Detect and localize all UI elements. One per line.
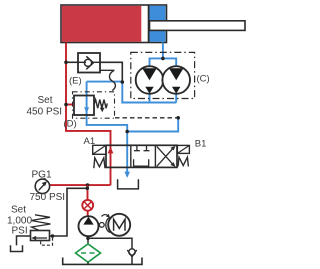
wire red stub to D — [66, 104, 74, 106]
wire blue top horizontal to E junction — [87, 81, 123, 83]
check valve E box — [78, 53, 100, 73]
node junction top bus — [161, 57, 165, 61]
wire blue divider top bus — [150, 58, 177, 66]
wire black bypass to check valve — [88, 238, 132, 249]
tank bracket below valve — [118, 179, 139, 189]
arrow inside relief R2 — [31, 236, 47, 240]
tank bracket R2 — [11, 245, 23, 251]
node junction suction — [86, 237, 90, 241]
wire black red-line to E inlet — [66, 61, 78, 63]
svg-text:Set: Set — [11, 205, 26, 216]
valve V1 crossed arrows position — [157, 146, 176, 167]
pilot arrow of relief D — [100, 104, 105, 112]
flow divider motor left — [136, 66, 164, 94]
spring of relief D — [94, 100, 107, 109]
svg-text:750 PSI: 750 PSI — [30, 192, 66, 203]
node junction red at E — [64, 61, 68, 65]
flow divider motor right — [162, 66, 190, 94]
test point (circle X) — [82, 200, 93, 211]
wire black pump suction — [87, 236, 89, 244]
node junction red above test point — [86, 183, 90, 187]
filter F1 — [76, 244, 101, 262]
directional valve V1 body — [106, 145, 177, 167]
node junction E-blue — [121, 80, 125, 84]
svg-text:PSI: PSI — [12, 226, 28, 237]
relief valve R2 box — [31, 231, 50, 241]
wire red test point to pump — [87, 211, 89, 217]
shaft coupling — [99, 217, 110, 232]
wire blue divider bottom bus to riser — [122, 82, 176, 103]
arrow red flow up in valve — [108, 147, 114, 154]
wire black filter to reservoir — [87, 262, 89, 264]
svg-text:B1: B1 — [195, 139, 207, 150]
svg-text:(E): (E) — [69, 76, 82, 87]
electric motor M1 — [108, 214, 130, 236]
wire black branch to relief valve R2 — [50, 188, 88, 236]
rotation arrow — [102, 214, 111, 218]
wire black E outlet to blue junction — [100, 62, 122, 82]
svg-text:450 PSI: 450 PSI — [27, 107, 63, 118]
node junction red at D — [64, 103, 68, 107]
pilot dashed line D to B1 branch — [115, 117, 178, 119]
solenoid right of valve V1 — [177, 145, 189, 153]
valve V1 center position blocked ports — [134, 145, 150, 166]
pilot dashed of R2 — [41, 238, 53, 245]
spring left of valve V1 — [94, 158, 105, 168]
relief valve D box — [74, 96, 94, 116]
node junction pilot-blue — [176, 116, 180, 120]
wire blue through relief D down to valve B port — [87, 82, 128, 177]
solenoid left of valve V1 — [93, 145, 106, 154]
arrow blue into tank below valve — [124, 172, 130, 178]
bypass check valve CV2 — [127, 249, 136, 265]
wire red cap-end line from cylinder to valve A port — [66, 43, 111, 186]
reservoir bracket — [63, 258, 142, 265]
svg-text:(C): (C) — [197, 74, 210, 85]
wire black E drain with hose squiggle — [100, 70, 115, 90]
wire blue B1 branch — [127, 118, 178, 132]
cylinder C1 piston rod — [150, 21, 246, 31]
check valve E symbol — [78, 56, 100, 69]
gauge PG1 — [35, 178, 49, 194]
svg-text:A1: A1 — [84, 136, 96, 147]
spring of relief R2 — [31, 215, 51, 231]
spring right of valve V1 — [178, 157, 188, 166]
svg-text:Set: Set — [38, 95, 53, 106]
wire blue rod-end line cylinder to divider bus — [162, 43, 164, 59]
wire red junction to test point — [87, 185, 89, 200]
arrow blue down inside relief D — [84, 107, 89, 112]
svg-text:(D): (D) — [64, 119, 77, 130]
node junction at R2 inlet — [51, 234, 55, 238]
wire red bottom run valve P to gauge — [50, 184, 111, 186]
enclosure around relief D (dash-dot) — [73, 92, 115, 118]
pump P1 — [79, 216, 99, 236]
node junction black below red — [86, 187, 90, 191]
svg-text:PG1: PG1 — [32, 170, 52, 181]
enclosure flow divider C (dash-dot) — [131, 52, 195, 98]
wire black R2 outlet to tank — [17, 236, 31, 245]
node junction blue at valve B drop — [125, 130, 129, 134]
cylinder C1 body — [61, 5, 167, 43]
